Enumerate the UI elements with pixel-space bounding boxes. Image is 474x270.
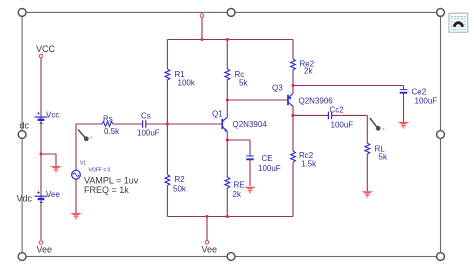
resistor R1 100k [165, 69, 170, 80]
wire RE branch lower [226, 188, 228, 217]
wire RL to ground [366, 154, 368, 191]
wire RL branch upper [366, 115, 368, 143]
wire input segment 1 [76, 123, 102, 125]
svg-text:100uF: 100uF [137, 129, 160, 138]
svg-text:2k: 2k [233, 190, 242, 199]
svg-text:Q2N3904: Q2N3904 [233, 120, 268, 129]
resistor Rs 0.5k (horizontal) [102, 122, 113, 127]
wire left vertical middle [166, 80, 168, 175]
svg-text:CE: CE [262, 154, 273, 163]
svg-text:Q3: Q3 [272, 84, 283, 93]
wire collector junction to Q3 base [227, 99, 288, 101]
junction Q3 emitter node [292, 84, 295, 87]
svg-text:VAMPL = 1uv: VAMPL = 1uv [84, 176, 139, 186]
resistor Re2 2k [291, 59, 296, 70]
wire top rail [167, 39, 293, 41]
ground (0) below VCC branch [50, 166, 62, 173]
capacitor Cc2 100uF [328, 112, 331, 120]
ground below RL [361, 191, 373, 198]
svg-text:100uF: 100uF [258, 164, 281, 173]
junction Rc top [226, 38, 229, 41]
probe marker at output [370, 118, 385, 131]
svg-text:100uF: 100uF [331, 121, 354, 130]
node Vee left [39, 241, 43, 245]
capacitor Cs 100uF [143, 120, 146, 127]
svg-text:50k: 50k [173, 185, 187, 194]
junction collector node [226, 99, 229, 102]
wire CE to ground [249, 160, 251, 186]
junction emitter node [226, 138, 229, 141]
svg-text:2k: 2k [304, 67, 313, 76]
svg-text:R2: R2 [175, 175, 186, 184]
svg-text:100uF: 100uF [415, 97, 438, 106]
ground below Ce2 [398, 122, 410, 128]
wire Q3 collector down [292, 106, 294, 151]
junction input/divider [166, 123, 169, 126]
junction RE bottom [226, 215, 229, 218]
node VCC top [39, 54, 43, 58]
svg-text:V1: V1 [80, 161, 86, 167]
layout-options button [449, 13, 468, 32]
wire mid vertical above Rc [226, 40, 228, 70]
dc source Vee (battery) [35, 191, 48, 202]
svg-text:1.5k: 1.5k [301, 160, 317, 169]
svg-text:VCC: VCC [36, 44, 56, 54]
wire V1 to input [75, 124, 77, 171]
selection frame [22, 12, 440, 256]
svg-text:Vdc: Vdc [17, 194, 33, 204]
svg-text:Cs: Cs [141, 111, 151, 120]
wire bottom rail [167, 216, 293, 218]
svg-text:dc: dc [20, 121, 30, 131]
probe marker at input [78, 130, 93, 142]
capacitor Ce2 100uF [400, 90, 408, 93]
wire V1 to ground [75, 179, 77, 213]
ground below CE [244, 187, 256, 194]
svg-text:Vee: Vee [37, 245, 53, 255]
svg-text:Vee: Vee [46, 190, 60, 199]
wire Ce2 branch horizontal [293, 85, 404, 87]
capacitor CE 100uF [246, 156, 254, 159]
wire VCC chain vertical [40, 58, 42, 240]
wire input segment 2 [113, 123, 142, 125]
resistor R2 50k [165, 175, 170, 186]
svg-text:FREQ = 1k: FREQ = 1k [84, 185, 129, 195]
transistor Q3 Q2N3906 (PNP) [288, 94, 293, 107]
wire Rc2 to bottom rail [292, 163, 294, 217]
wire Rc to collector junction [226, 80, 228, 118]
wire input segment 3 to Q1 base [146, 123, 223, 125]
svg-text:Q2N3906: Q2N3906 [299, 97, 334, 106]
wire branch to ground from VCC chain [41, 154, 56, 166]
svg-text:Vee: Vee [202, 245, 218, 255]
wire right vertical above Re2 [292, 40, 294, 60]
wire Ce2 to ground [403, 93, 405, 122]
svg-text:Ce2: Ce2 [412, 88, 427, 97]
wire Q1 emitter down [226, 131, 228, 140]
wire Ce2 top stub [403, 86, 405, 90]
wire Cc2 branch right [332, 114, 368, 116]
sine source V1 [72, 170, 81, 179]
svg-text:100k: 100k [178, 79, 196, 88]
wire Cc2 branch left [293, 114, 328, 116]
wire Vee stub [206, 217, 208, 241]
resistor Rc2 1.5k [291, 151, 296, 162]
node Vee bottom [205, 241, 209, 245]
resistor RL 5k [365, 143, 370, 154]
wire top node stub [201, 18, 203, 40]
wire Re2 to emitter junction [292, 70, 294, 94]
dc source Vcc (battery) [35, 112, 48, 124]
svg-text:Cc2: Cc2 [330, 106, 345, 115]
svg-text:Q1: Q1 [212, 110, 223, 119]
transistor Q1 Q2N3904 (NPN) [222, 117, 227, 132]
wire left vertical lower (R2) [166, 186, 168, 217]
junction Vee stub [206, 215, 209, 218]
node circles (open) [39, 14, 209, 245]
resistor RE 2k [225, 177, 230, 188]
ground below V1 [70, 213, 82, 220]
svg-text:0.5k: 0.5k [104, 127, 120, 136]
svg-text:5k: 5k [239, 79, 248, 88]
svg-text:VOFF = 0: VOFF = 0 [89, 168, 111, 174]
wire emitter junction to CE [227, 139, 250, 141]
junction Q3 collector node [291, 114, 294, 117]
resistor Rc 5k [225, 69, 230, 80]
wire left vertical upper (R1) [166, 40, 168, 70]
svg-text:Vcc: Vcc [46, 111, 59, 120]
junction VCC branch [40, 153, 43, 156]
junction top stub [201, 38, 204, 41]
wire RE branch upper [226, 140, 228, 177]
node top rail [200, 14, 204, 18]
svg-text:5k: 5k [379, 153, 388, 162]
svg-text:Rs: Rs [103, 115, 113, 124]
wire CE top stub [249, 140, 251, 156]
svg-text:RE: RE [234, 181, 245, 190]
